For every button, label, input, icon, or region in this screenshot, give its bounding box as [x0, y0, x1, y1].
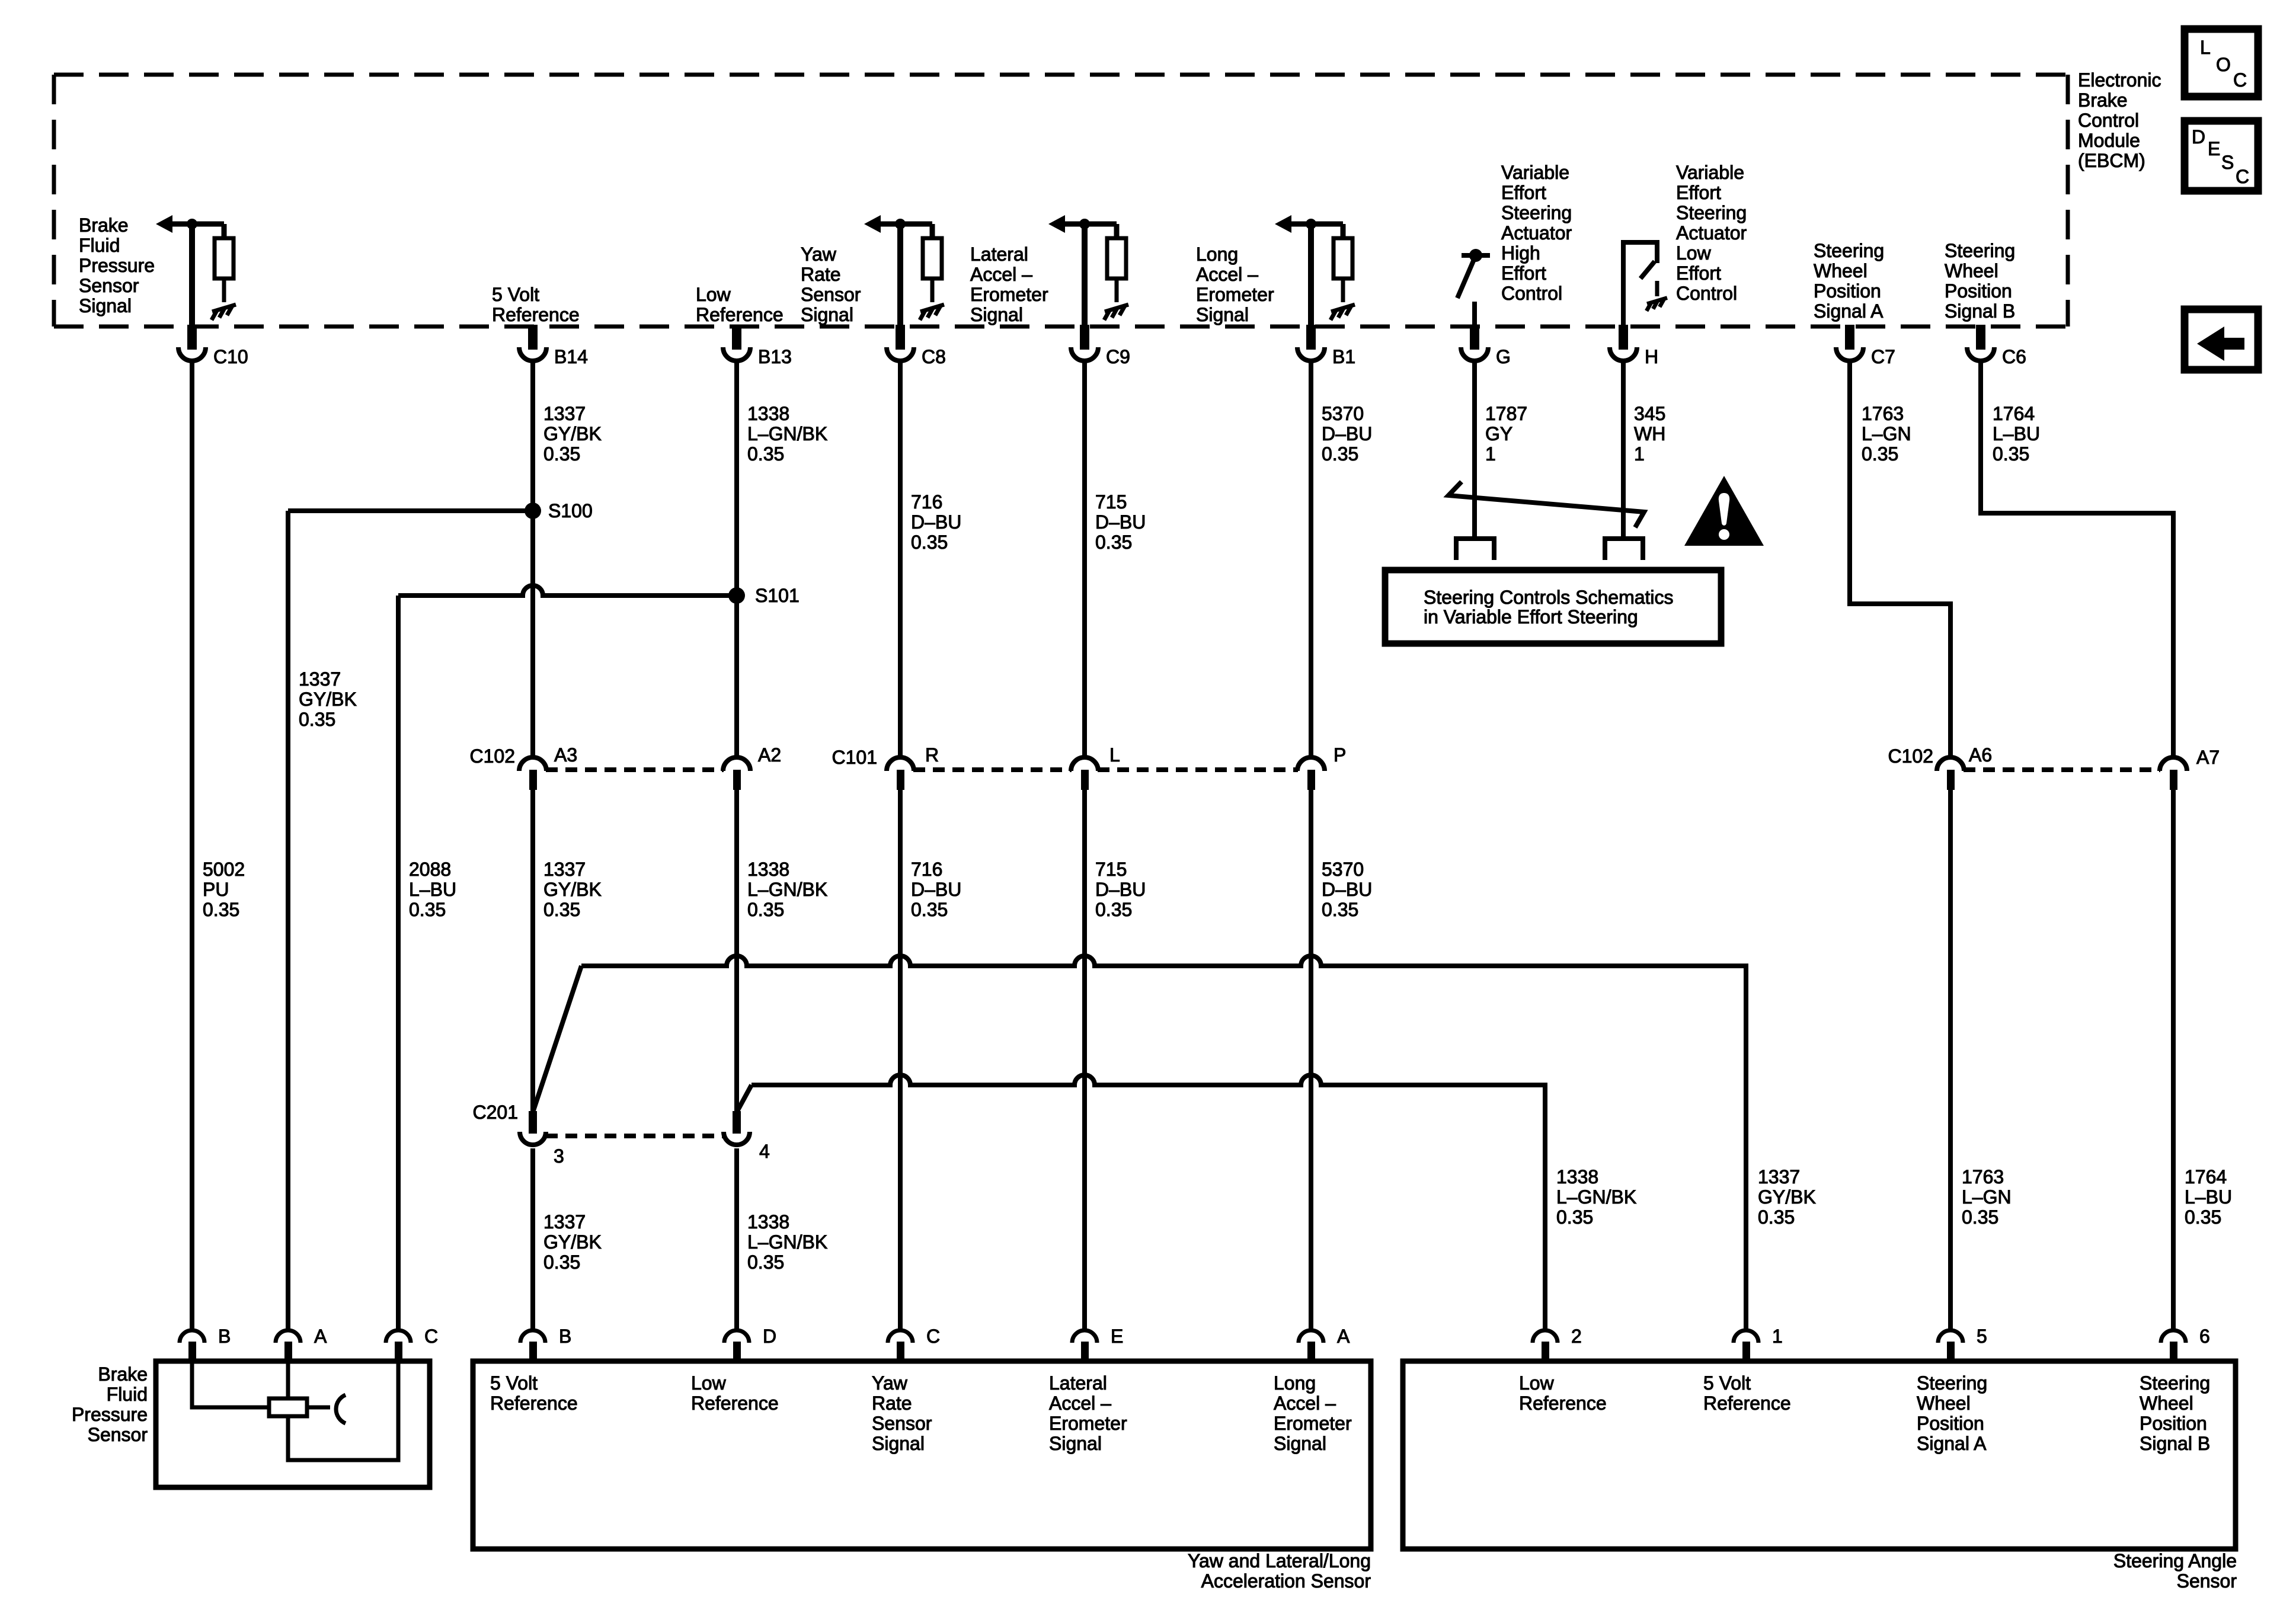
wire G to steering controls — [1472, 361, 1477, 539]
svg-text:A2: A2 — [758, 744, 781, 766]
high effort control switch (EBCM internal) — [1457, 249, 1490, 327]
connector pin C at sensor box — [386, 1330, 411, 1362]
svg-text:H: H — [1645, 346, 1658, 367]
DESC reference box — [2185, 121, 2258, 191]
warning triangle — [1684, 476, 1764, 546]
svg-text:6: 6 — [2199, 1326, 2210, 1347]
connector pin B14 at EBCM — [519, 325, 546, 361]
svg-text:G: G — [1496, 346, 1511, 367]
connector C101 pin R — [887, 757, 914, 790]
svg-text:SteeringWheelPositionSignal B: SteeringWheelPositionSignal B — [1945, 240, 2015, 322]
LOC reference box — [2185, 29, 2258, 97]
svg-text:C7: C7 — [1871, 346, 1895, 367]
wire C201-3 to sensor pin B — [530, 1148, 535, 1330]
low effort control switch with ground (EBCM internal) — [1623, 242, 1667, 327]
svg-text:C102: C102 — [1888, 745, 1934, 767]
back-arrow navigation box — [2185, 309, 2258, 370]
wire C9 to C101 L — [1082, 361, 1087, 757]
connector C101 pin L — [1071, 757, 1098, 790]
svg-text:C: C — [2236, 166, 2249, 187]
svg-text:E: E — [2208, 138, 2220, 159]
svg-text:E: E — [1111, 1326, 1123, 1347]
connector pin G at EBCM — [1461, 325, 1488, 361]
wire diagonal from bus to C201 pin 3 — [533, 966, 581, 1112]
wire C201-4 to sensor pin D — [734, 1148, 739, 1330]
connector C101 dashed tie L-P — [1098, 767, 1298, 772]
connector pin E at sensor box — [1072, 1330, 1097, 1362]
svg-text:SteeringWheelPositionSignal A: SteeringWheelPositionSignal A — [1814, 240, 1884, 322]
wire S101 branch horizontal with hop over B14 wire — [398, 585, 737, 596]
wire C10 internal — [189, 224, 195, 327]
wire L to sensor pin E — [1082, 789, 1087, 1330]
connector C102 dashed tie A6-A7 — [1964, 767, 2160, 772]
svg-text:L: L — [1109, 744, 1120, 766]
wire C8 internal — [897, 224, 903, 327]
svg-text:C101: C101 — [832, 747, 878, 768]
svg-text:A: A — [1337, 1326, 1350, 1347]
svg-text:C10: C10 — [213, 346, 248, 367]
svg-text:B13: B13 — [758, 346, 792, 367]
svg-text:O: O — [2216, 54, 2231, 75]
svg-text:C: C — [926, 1326, 940, 1347]
mechanical link line between actuator circuits — [1448, 482, 1644, 527]
svg-text:A6: A6 — [1969, 744, 1992, 766]
svg-text:4: 4 — [759, 1141, 770, 1162]
wire A2 to C201 pin 4 — [734, 789, 739, 1112]
svg-text:C201: C201 — [473, 1102, 519, 1123]
connector pin C10 at EBCM — [178, 325, 206, 361]
connector pin B13 at EBCM — [723, 325, 750, 361]
splice S101 — [728, 587, 745, 604]
svg-text:B14: B14 — [554, 346, 588, 367]
svg-text:C8: C8 — [922, 346, 946, 367]
brake fluid pressure sensor signal arrow + pull-up resistor + ground (EBCM internal) — [156, 215, 236, 320]
wire B1 to C101 P — [1309, 361, 1313, 757]
connector pin D at sensor box — [724, 1330, 749, 1362]
Steering Angle Sensor box — [1403, 1361, 2236, 1549]
Yaw and Lateral/Long Acceleration Sensor box — [473, 1361, 1371, 1549]
Brake Fluid Pressure Sensor box — [156, 1361, 430, 1487]
wire B1 internal — [1308, 224, 1314, 327]
svg-text:R: R — [925, 744, 939, 766]
svg-text:C9: C9 — [1106, 346, 1130, 367]
wire P to sensor pin A — [1309, 789, 1313, 1330]
connector C201 pin 4 — [724, 1111, 750, 1145]
connector pin 6 at sensor box — [2161, 1330, 2186, 1362]
svg-text:C: C — [424, 1326, 438, 1347]
connector bracket to steering controls (G) — [1456, 539, 1494, 560]
svg-text:C102: C102 — [470, 745, 516, 767]
connector C201 pin 3 — [520, 1111, 546, 1145]
wire bus 1337 to steering sensor pin 1 (hops over crossing wires) — [581, 956, 1746, 1330]
lateral accelerometer signal arrow + resistor + ground (EBCM internal) — [1048, 215, 1128, 320]
connector pin B1 at EBCM — [1297, 325, 1325, 361]
connector C102 pin A3 — [519, 757, 546, 790]
connector pin C6 at EBCM — [1967, 325, 1994, 361]
svg-text:A7: A7 — [2196, 747, 2220, 768]
wire B13 to C102 A2 — [734, 361, 739, 757]
yaw rate signal arrow + resistor + ground (EBCM internal) — [864, 215, 944, 320]
connector pin 5 at sensor box — [1938, 1330, 1963, 1362]
wire A3 to C201 pin 3 — [530, 789, 535, 1112]
wire bus 1338 to steering sensor pin 2 (hops over crossing wires) — [752, 1075, 1545, 1330]
wire R to yaw sensor pin C — [898, 789, 903, 1330]
wire 2088 branch down to pin C — [396, 596, 401, 1330]
svg-text:B: B — [559, 1326, 571, 1347]
connector pin B at sensor box — [180, 1330, 204, 1362]
wire 1337 branch down to pin A — [286, 511, 290, 1330]
svg-text:S: S — [2221, 152, 2234, 173]
connector pin C8 at EBCM — [887, 325, 914, 361]
connector pin C9 at EBCM — [1071, 325, 1098, 361]
connector pin A at sensor box — [1299, 1330, 1323, 1362]
connector C101 dashed tie R-L — [913, 767, 1072, 772]
svg-text:A3: A3 — [554, 744, 577, 766]
connector pin 1 at sensor box — [1734, 1330, 1758, 1362]
wire A7 to steering sensor pin 6 — [2171, 789, 2176, 1330]
svg-text:3: 3 — [554, 1145, 564, 1167]
EBCM dashed module box — [54, 75, 2068, 327]
connector C101 pin P — [1297, 757, 1325, 790]
brake pressure sensor internal circuit — [192, 1361, 398, 1460]
svg-text:D: D — [763, 1326, 776, 1347]
wire C8 to C101 R — [898, 361, 903, 757]
svg-text:Steering Controls Schematicsin: Steering Controls Schematicsin Variable … — [1424, 587, 1674, 628]
svg-text:Yaw and Lateral/LongAccelerati: Yaw and Lateral/LongAcceleration Sensor — [1188, 1550, 1371, 1592]
connector pin B at sensor box — [520, 1330, 545, 1362]
svg-text:S100: S100 — [548, 500, 593, 521]
connector C102 dashed tie A3-A2 — [546, 767, 724, 772]
connector pin A at sensor box — [276, 1330, 300, 1362]
svg-text:L: L — [2200, 37, 2211, 58]
wire S100 branch horizontal — [288, 508, 533, 513]
splice S100 — [525, 502, 541, 519]
svg-text:P: P — [1334, 744, 1346, 766]
connector C102 pin A6 — [1937, 757, 1964, 790]
wire C6 to C102 A7 — [1981, 361, 2173, 757]
wire B14 to C102 A3 — [530, 361, 535, 757]
svg-text:5: 5 — [1977, 1326, 1987, 1347]
svg-text:B: B — [218, 1326, 231, 1347]
svg-text:SteeringWheelPositionSignal B: SteeringWheelPositionSignal B — [2140, 1372, 2210, 1454]
connector bracket to steering controls (H) — [1605, 539, 1643, 560]
connector C102 pin A7 — [2160, 757, 2187, 790]
svg-text:S101: S101 — [755, 585, 800, 606]
svg-text:C6: C6 — [2002, 346, 2026, 367]
wire A6 to steering sensor pin 5 — [1948, 789, 1953, 1330]
wire C7 to C102 A6 — [1850, 361, 1950, 757]
svg-text:SteeringWheelPositionSignal A: SteeringWheelPositionSignal A — [1917, 1372, 1987, 1454]
Steering Controls Schematics reference box — [1385, 570, 1721, 644]
wire C9 internal — [1082, 224, 1088, 327]
svg-text:A: A — [314, 1326, 327, 1347]
connector pin C at sensor box — [888, 1330, 913, 1362]
connector pin H at EBCM — [1610, 325, 1637, 361]
svg-text:2: 2 — [1571, 1326, 1582, 1347]
connector C102 pin A2 — [723, 757, 750, 790]
wire H to steering controls — [1621, 361, 1626, 539]
svg-text:D: D — [2192, 126, 2205, 148]
svg-text:C: C — [2233, 69, 2247, 91]
wire C10 to brake sensor pin B — [190, 361, 194, 1330]
connector C201 dashed tie 3-4 — [546, 1134, 724, 1138]
svg-text:1: 1 — [1772, 1326, 1783, 1347]
connector pin C7 at EBCM — [1836, 325, 1863, 361]
svg-text:B1: B1 — [1332, 346, 1355, 367]
long accelerometer signal arrow + resistor + ground (EBCM internal) — [1275, 215, 1355, 320]
connector pin 2 at sensor box — [1533, 1330, 1558, 1362]
wire diagonal from bus to C201 pin 4 — [737, 1085, 752, 1112]
